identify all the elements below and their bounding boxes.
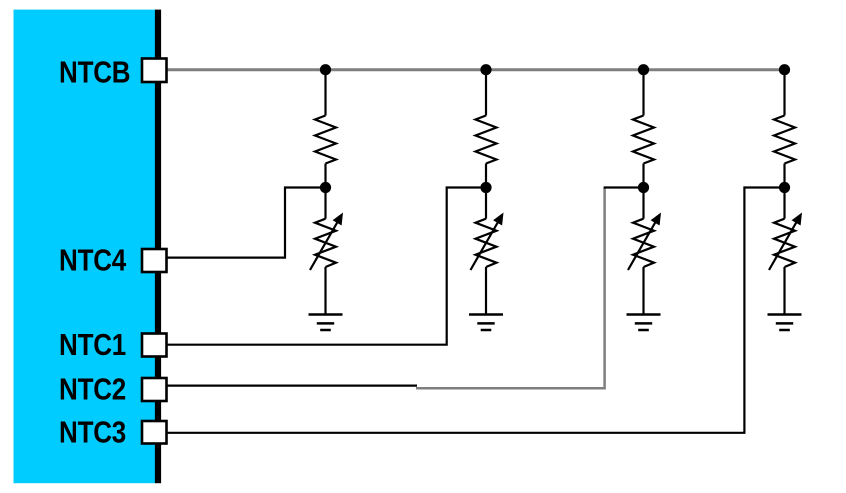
svg-text:NTC1: NTC1 (59, 328, 126, 363)
thermistor branch 3 (628, 213, 661, 271)
junction dot on rail branch 1 (320, 64, 331, 75)
junction node branch 3 (638, 182, 649, 193)
svg-text:NTC4: NTC4 (59, 244, 126, 279)
wire thermistor to ground branch 3 (642, 267, 644, 315)
wire rail to resistor branch 2 (485, 70, 487, 116)
wire NTCB rail (gray) (166, 68, 785, 71)
resistor branch 1 (315, 116, 336, 164)
wire resistor to thermistor branch 3 (642, 164, 644, 219)
resistor branch 2 (476, 116, 497, 164)
pin NTC2 (142, 378, 167, 401)
ground branch 4 (768, 315, 802, 331)
wire rail to resistor branch 3 (642, 70, 644, 116)
ground branch 2 (469, 315, 503, 331)
wire NTC3 pin to branch 4 node (166, 188, 785, 433)
wire resistor to thermistor branch 4 (783, 164, 785, 219)
thermistor branch 4 (769, 213, 802, 271)
wire NTC4 pin to branch 1 node (166, 188, 326, 258)
wire branch 3 node stub (604, 186, 644, 188)
junction dot on rail branch 3 (638, 64, 649, 75)
ground branch 3 (627, 315, 661, 331)
pin NTC4 (142, 249, 167, 272)
wire NTC2 route (gray) (416, 188, 605, 388)
wire resistor to thermistor branch 2 (485, 164, 487, 219)
thermistor branch 1 (310, 213, 343, 271)
junction node branch 2 (480, 182, 491, 193)
pin NTC1 (142, 334, 167, 357)
thermistor branch 2 (471, 213, 504, 271)
wire thermistor to ground branch 1 (324, 267, 326, 315)
wire NTC2 pin stub (black) (166, 385, 417, 387)
wire thermistor to ground branch 2 (485, 267, 487, 315)
IC right-edge border bar (155, 10, 161, 484)
junction dot on rail branch 2 (480, 64, 491, 75)
junction dot on rail branch 4 (779, 64, 790, 75)
pin NTC3 (142, 421, 167, 444)
svg-text:NTC3: NTC3 (59, 416, 126, 451)
ground branch 1 (309, 315, 343, 331)
wire rail to resistor branch 4 (783, 70, 785, 116)
wire rail to resistor branch 1 (324, 70, 326, 116)
resistor branch 3 (633, 116, 654, 164)
wire NTC1 pin to branch 2 node (166, 188, 486, 345)
svg-text:NTC2: NTC2 (59, 373, 126, 408)
IC body (cyan block) (14, 10, 156, 484)
wire thermistor to ground branch 4 (783, 267, 785, 315)
wire resistor to thermistor branch 1 (324, 164, 326, 219)
svg-text:NTCB: NTCB (59, 56, 130, 91)
junction node branch 1 (320, 182, 331, 193)
resistor branch 4 (774, 116, 795, 164)
junction node branch 4 (779, 182, 790, 193)
pin NTCB (142, 59, 167, 83)
